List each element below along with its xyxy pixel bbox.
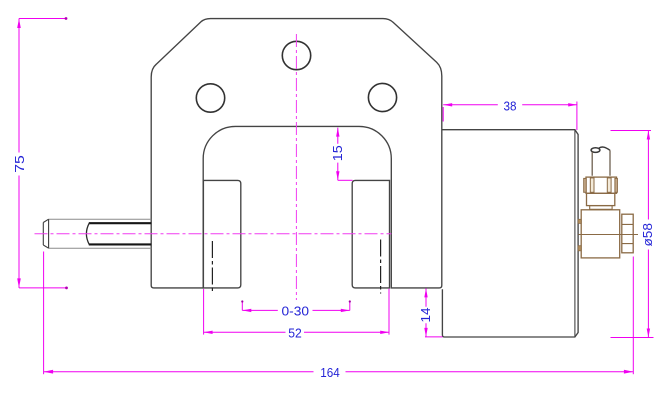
plug mid block bbox=[587, 193, 615, 205]
svg-text:0-30: 0-30 bbox=[282, 303, 310, 318]
dim ø58 extension top bbox=[611, 130, 652, 132]
dim ø58 extension bottom bbox=[611, 337, 654, 339]
dim 0-30 tick right bbox=[349, 301, 351, 310]
svg-text:164: 164 bbox=[320, 365, 340, 380]
svg-text:38: 38 bbox=[504, 98, 517, 113]
right jaw hole centerline bbox=[380, 240, 382, 294]
shaft thread runout arc bbox=[86, 223, 89, 244]
dim 38 extension left bbox=[442, 107, 444, 122]
plug slot right bbox=[607, 178, 611, 192]
dim 75 extension top bbox=[19, 18, 66, 20]
dim 38 extension right bbox=[576, 102, 578, 131]
plug slot left bbox=[590, 178, 594, 192]
connector plug top block bbox=[586, 177, 617, 193]
dim 14 line bbox=[425, 288, 427, 337]
svg-text:52: 52 bbox=[288, 325, 302, 340]
dim 164 extension right bbox=[632, 257, 634, 375]
plug right ear bbox=[615, 178, 618, 192]
connector centerline bbox=[578, 234, 638, 236]
dim 15 line bbox=[337, 128, 339, 181]
vertical centerline bbox=[295, 34, 297, 300]
dim ø58 line bbox=[647, 131, 649, 338]
nut bbox=[622, 214, 633, 253]
dim 0-30 tick left bbox=[241, 301, 243, 310]
dim 164 line bbox=[44, 371, 634, 373]
cable loop bbox=[591, 148, 600, 153]
nut facet lines bbox=[622, 224, 633, 243]
svg-text:75: 75 bbox=[12, 155, 27, 173]
svg-text:15: 15 bbox=[330, 145, 345, 161]
plug thin bar bbox=[590, 206, 612, 210]
dim 0-30 line bbox=[242, 309, 349, 311]
right mounting hole bbox=[368, 83, 396, 111]
motor body bbox=[442, 130, 578, 337]
bracket body outline bbox=[151, 19, 442, 288]
cable sides bbox=[592, 150, 610, 175]
dim 52 extension left bbox=[203, 289, 205, 335]
dim 14 extension bbox=[425, 336, 443, 338]
right jaw bbox=[352, 180, 389, 288]
dim 52 line bbox=[204, 331, 390, 333]
dim 15 extension bbox=[338, 179, 353, 181]
body tab lower bbox=[578, 246, 581, 251]
body tab upper bbox=[578, 219, 581, 223]
left jaw bbox=[203, 180, 240, 288]
horizontal centerline bbox=[35, 233, 392, 235]
dim 38 line bbox=[443, 104, 577, 106]
svg-text:14: 14 bbox=[418, 308, 433, 323]
left jaw hole centerline bbox=[211, 241, 213, 293]
left mounting hole bbox=[196, 84, 224, 112]
svg-text:ø58: ø58 bbox=[640, 223, 655, 247]
plug left ear bbox=[584, 178, 587, 192]
shaft thin outer lines (thread crest) bbox=[49, 219, 152, 248]
top mounting hole bbox=[282, 41, 310, 69]
connector main body bbox=[581, 210, 620, 258]
dim 75 line bbox=[18, 19, 20, 288]
dim 52 extension right bbox=[388, 289, 390, 335]
dim 75 extension bottom bbox=[19, 287, 66, 289]
dim 164 extension left bbox=[43, 252, 45, 375]
shaft thick body lines bbox=[89, 223, 151, 244]
shaft end cap bbox=[43, 219, 48, 248]
motor face line bbox=[574, 130, 576, 337]
